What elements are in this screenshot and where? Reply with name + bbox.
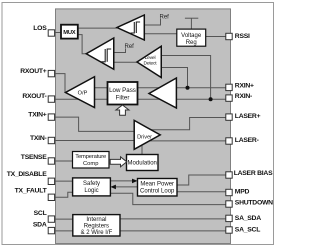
svg-text:TX_DISABLE: TX_DISABLE	[7, 171, 48, 178]
svg-text:Registers: Registers	[84, 224, 109, 230]
svg-text:Safety: Safety	[83, 181, 100, 187]
svg-text:LASER-: LASER-	[235, 137, 259, 144]
svg-text:Logic: Logic	[84, 188, 98, 194]
svg-text:TXIN+: TXIN+	[28, 112, 46, 119]
svg-text:SA_SCL: SA_SCL	[235, 227, 260, 234]
svg-text:Mean Power: Mean Power	[140, 182, 174, 188]
svg-text:RXIN+: RXIN+	[235, 82, 254, 89]
svg-text:RXIN-: RXIN-	[235, 93, 252, 100]
svg-text:Ref: Ref	[160, 14, 170, 20]
svg-text:SHUTDOWN: SHUTDOWN	[235, 200, 273, 207]
svg-text:Driver: Driver	[137, 135, 152, 141]
svg-text:RSSI: RSSI	[235, 33, 250, 40]
svg-text:Filter: Filter	[116, 94, 130, 101]
svg-text:RXOUT-: RXOUT-	[22, 93, 46, 100]
svg-text:RXOUT+: RXOUT+	[20, 68, 47, 75]
svg-text:Ref: Ref	[125, 44, 135, 50]
svg-text:MUX: MUX	[63, 30, 75, 36]
svg-text:Control Loop: Control Loop	[140, 189, 175, 195]
svg-text:Low Pass: Low Pass	[109, 87, 136, 94]
svg-text:LASER+: LASER+	[235, 113, 261, 120]
svg-text:SDA: SDA	[33, 222, 47, 229]
svg-text:& 2 Wire I/F: & 2 Wire I/F	[81, 230, 113, 236]
svg-text:Level: Level	[145, 55, 156, 61]
svg-text:LOS: LOS	[33, 25, 47, 32]
svg-text:LASER BIAS: LASER BIAS	[234, 170, 273, 177]
svg-text:TSENSE: TSENSE	[21, 154, 47, 161]
svg-text:SA_SDA: SA_SDA	[235, 215, 261, 222]
svg-text:Comp: Comp	[83, 161, 98, 167]
svg-text:MPD: MPD	[235, 188, 250, 195]
svg-text:TX_FAULT: TX_FAULT	[15, 188, 48, 195]
svg-text:TXIN-: TXIN-	[30, 135, 47, 142]
svg-text:O/P: O/P	[78, 91, 88, 97]
svg-text:Voltage: Voltage	[181, 33, 202, 39]
svg-text:Modulation: Modulation	[128, 161, 157, 167]
svg-text:Detect: Detect	[144, 60, 158, 66]
svg-text:SCL: SCL	[34, 210, 47, 217]
svg-text:Internal: Internal	[86, 217, 106, 223]
svg-text:Temperature: Temperature	[75, 154, 106, 160]
svg-text:Reg: Reg	[186, 40, 197, 46]
